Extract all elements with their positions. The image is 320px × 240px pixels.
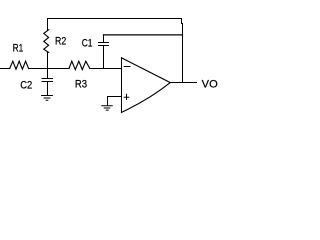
wire inner feedback bbox=[104, 34, 183, 36]
wire R3 to op-amp inverting input bbox=[90, 68, 122, 70]
wire C1 to inner feedback bbox=[103, 35, 105, 43]
wire outer feedback top bbox=[48, 19, 183, 83]
plus label bbox=[124, 94, 129, 99]
resistor R2 bbox=[44, 30, 49, 53]
wire R1 to node A bbox=[29, 68, 69, 70]
op-amp U1 bbox=[121, 58, 123, 113]
wire node A up to R2 bbox=[47, 53, 49, 69]
wire non-inverting input bbox=[108, 97, 122, 106]
wire output bbox=[171, 82, 197, 84]
wire input segment bbox=[0, 68, 10, 70]
ground (op-amp +) bbox=[102, 106, 112, 110]
resistor R3 bbox=[69, 61, 90, 69]
capacitor C2 bbox=[42, 79, 53, 82]
wire node A down to C2 bbox=[47, 69, 49, 79]
svg-text:R2: R2 bbox=[55, 36, 66, 48]
svg-text:R1: R1 bbox=[13, 42, 24, 54]
svg-text:VO: VO bbox=[202, 78, 218, 90]
svg-text:C2: C2 bbox=[20, 79, 32, 91]
svg-text:C1: C1 bbox=[82, 38, 93, 50]
minus label bbox=[124, 66, 130, 68]
resistor R1 bbox=[10, 61, 29, 69]
wire C1 stem from node B bbox=[103, 46, 105, 69]
capacitor C1 bbox=[99, 43, 109, 46]
svg-text:R3: R3 bbox=[75, 78, 87, 90]
wire C2 to ground bbox=[47, 82, 49, 95]
ground (C2) bbox=[42, 96, 53, 101]
wire R2 top bbox=[47, 19, 49, 30]
